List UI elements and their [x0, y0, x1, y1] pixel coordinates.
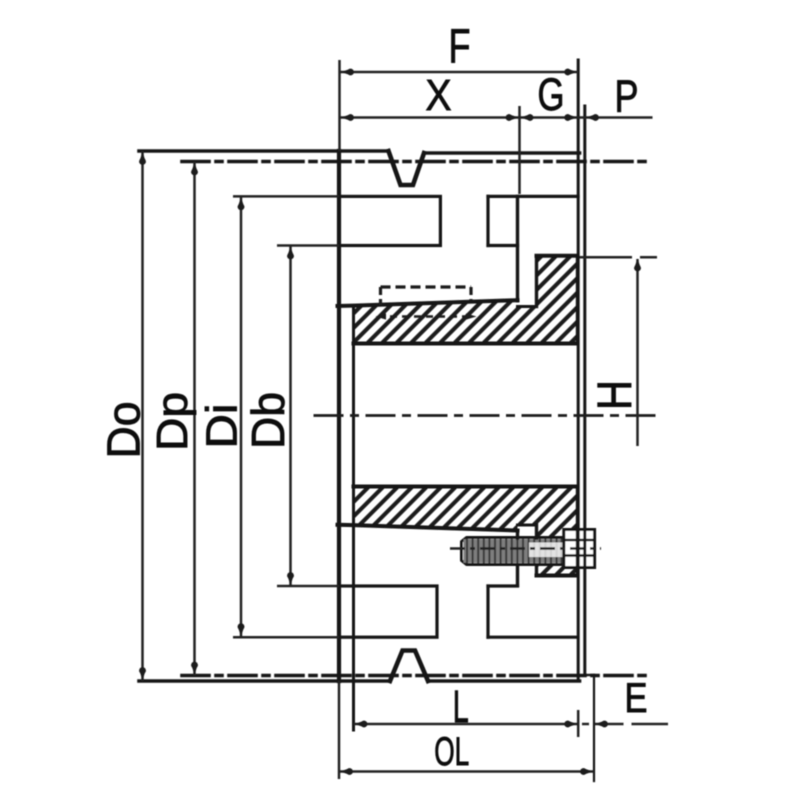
svg-text:P: P	[615, 71, 639, 122]
svg-text:Di: Di	[198, 404, 247, 449]
extension line X/G boundary	[518, 106, 521, 194]
dimension line E	[595, 723, 624, 726]
F arrows	[341, 69, 351, 76]
plate right face	[577, 60, 580, 681]
P arrow	[586, 114, 596, 121]
H arrow	[634, 259, 641, 269]
E arrow	[595, 721, 605, 728]
extension line OL left	[338, 681, 341, 779]
bore top	[354, 342, 578, 346]
flange right face upper	[576, 256, 579, 344]
svg-text:X: X	[426, 71, 452, 120]
bore bottom	[354, 485, 578, 489]
dimension line Dp	[193, 162, 196, 676]
Do arrows	[139, 152, 146, 162]
extension line Db bottom	[277, 585, 339, 588]
hub right face upper	[516, 196, 519, 300]
svg-text:Dp: Dp	[148, 392, 197, 451]
V tooth notch	[389, 151, 425, 185]
flange left face lower	[535, 525, 538, 538]
svg-text:Do: Do	[98, 402, 150, 459]
step to screw head extension	[585, 674, 594, 676]
upper-left window	[339, 196, 440, 245]
L arrows	[355, 721, 365, 728]
body bottom line	[139, 679, 390, 683]
dimension line Di	[240, 196, 243, 637]
extension line Di bottom	[233, 636, 339, 639]
svg-text:F: F	[449, 21, 471, 74]
keyway hidden lines (upper)	[376, 287, 477, 320]
flange right face lower	[576, 487, 579, 576]
dimension line Db	[289, 246, 292, 587]
lower-right window	[488, 584, 518, 587]
lower-left window	[339, 586, 437, 637]
screw head	[564, 530, 595, 568]
OL arrows	[340, 768, 350, 775]
Di arrows	[238, 197, 245, 207]
neck lower	[518, 524, 537, 527]
extension line Db top	[277, 244, 339, 247]
X arrows	[341, 114, 351, 121]
Dp arrows	[191, 163, 198, 173]
bushing left face	[352, 306, 355, 730]
extension line H top	[580, 256, 633, 259]
flange bottom	[537, 574, 578, 578]
body left edge	[337, 151, 341, 681]
screw (taper bushing cap screw)	[450, 530, 601, 568]
extension line Di top	[233, 195, 339, 198]
svg-text:OL: OL	[434, 730, 469, 774]
dimension line F	[340, 71, 578, 74]
svg-text:L: L	[453, 681, 469, 732]
svg-text:E: E	[625, 674, 648, 721]
flange left face upper	[535, 256, 538, 307]
screw axis	[450, 547, 601, 549]
arrowheads (dot style like scanned original)	[139, 69, 641, 775]
dimension line Do	[141, 151, 144, 681]
dimension line H	[636, 259, 639, 446]
taper line upper	[338, 300, 518, 306]
svg-text:Db: Db	[242, 392, 294, 449]
dimension line L	[354, 723, 579, 726]
flange outer face line	[583, 106, 586, 675]
dimension lines	[143, 60, 669, 779]
dimension line OL	[339, 770, 594, 773]
hub right face lower	[516, 531, 519, 539]
bushing lower cross-section hatch	[354, 487, 578, 576]
centerline	[314, 414, 657, 417]
flange top	[537, 254, 578, 258]
body top line	[139, 149, 389, 153]
upper-right small window	[486, 196, 489, 245]
screw thread body	[464, 539, 564, 563]
pitch line top (dash-dot)	[182, 160, 650, 164]
main body outlines	[139, 60, 650, 781]
extension line left (F/X)	[338, 60, 341, 151]
G arrows	[521, 114, 531, 121]
pitch line bottom (dash-dot)	[182, 674, 650, 678]
dimension line X G P	[340, 116, 653, 119]
svg-text:G: G	[538, 69, 565, 120]
bushing upper cross-section hatch	[354, 256, 578, 344]
screw shank outline	[462, 538, 567, 565]
Db arrows	[287, 247, 294, 257]
neck upper	[518, 305, 537, 308]
taper line lower	[338, 525, 518, 531]
bottom tooth bump	[390, 651, 428, 682]
upper window top edge right part	[488, 195, 578, 198]
extension line L right	[577, 710, 580, 737]
svg-text:H: H	[589, 380, 642, 410]
